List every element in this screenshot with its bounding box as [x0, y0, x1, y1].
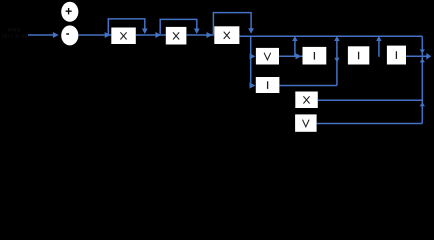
wire X4 feedback	[318, 99, 423, 101]
block X2	[166, 27, 187, 45]
wire I4 feedback up	[279, 85, 337, 87]
wire X3 output bus	[239, 35, 422, 37]
block X4	[295, 92, 318, 109]
block I3	[387, 46, 406, 65]
block V2	[295, 114, 317, 131]
wire node1 up arrow	[292, 36, 297, 56]
wire node3 stub	[376, 36, 381, 57]
svg-text:PHID: PHID	[8, 28, 21, 33]
block I2	[348, 46, 369, 64]
wire V2 feedback	[317, 123, 423, 125]
summing junction minus	[61, 25, 78, 45]
bypass loop X1	[108, 19, 147, 34]
svg-text:20+L.S+S2: 20+L.S+S2	[2, 33, 29, 38]
wire node2 vertical	[334, 36, 339, 86]
summing junction plus	[61, 2, 78, 22]
wire X2 to X3	[186, 32, 214, 38]
input label text	[2, 28, 29, 39]
wire input arrow	[28, 32, 59, 38]
bypass loop X2	[160, 19, 200, 34]
block X1	[111, 28, 136, 45]
block X3	[214, 26, 239, 44]
block V1	[256, 48, 279, 65]
block I1	[303, 47, 327, 65]
wire sum to X1	[78, 32, 111, 38]
bypass loop X3	[213, 13, 254, 34]
wire right bus vertical	[420, 36, 425, 123]
wire V1 to I1	[279, 53, 303, 59]
wire X1 to X2	[136, 32, 166, 38]
wire drop to V1 and I4	[250, 36, 256, 88]
wire I3 output arrow	[406, 53, 431, 60]
block I4	[256, 77, 280, 93]
